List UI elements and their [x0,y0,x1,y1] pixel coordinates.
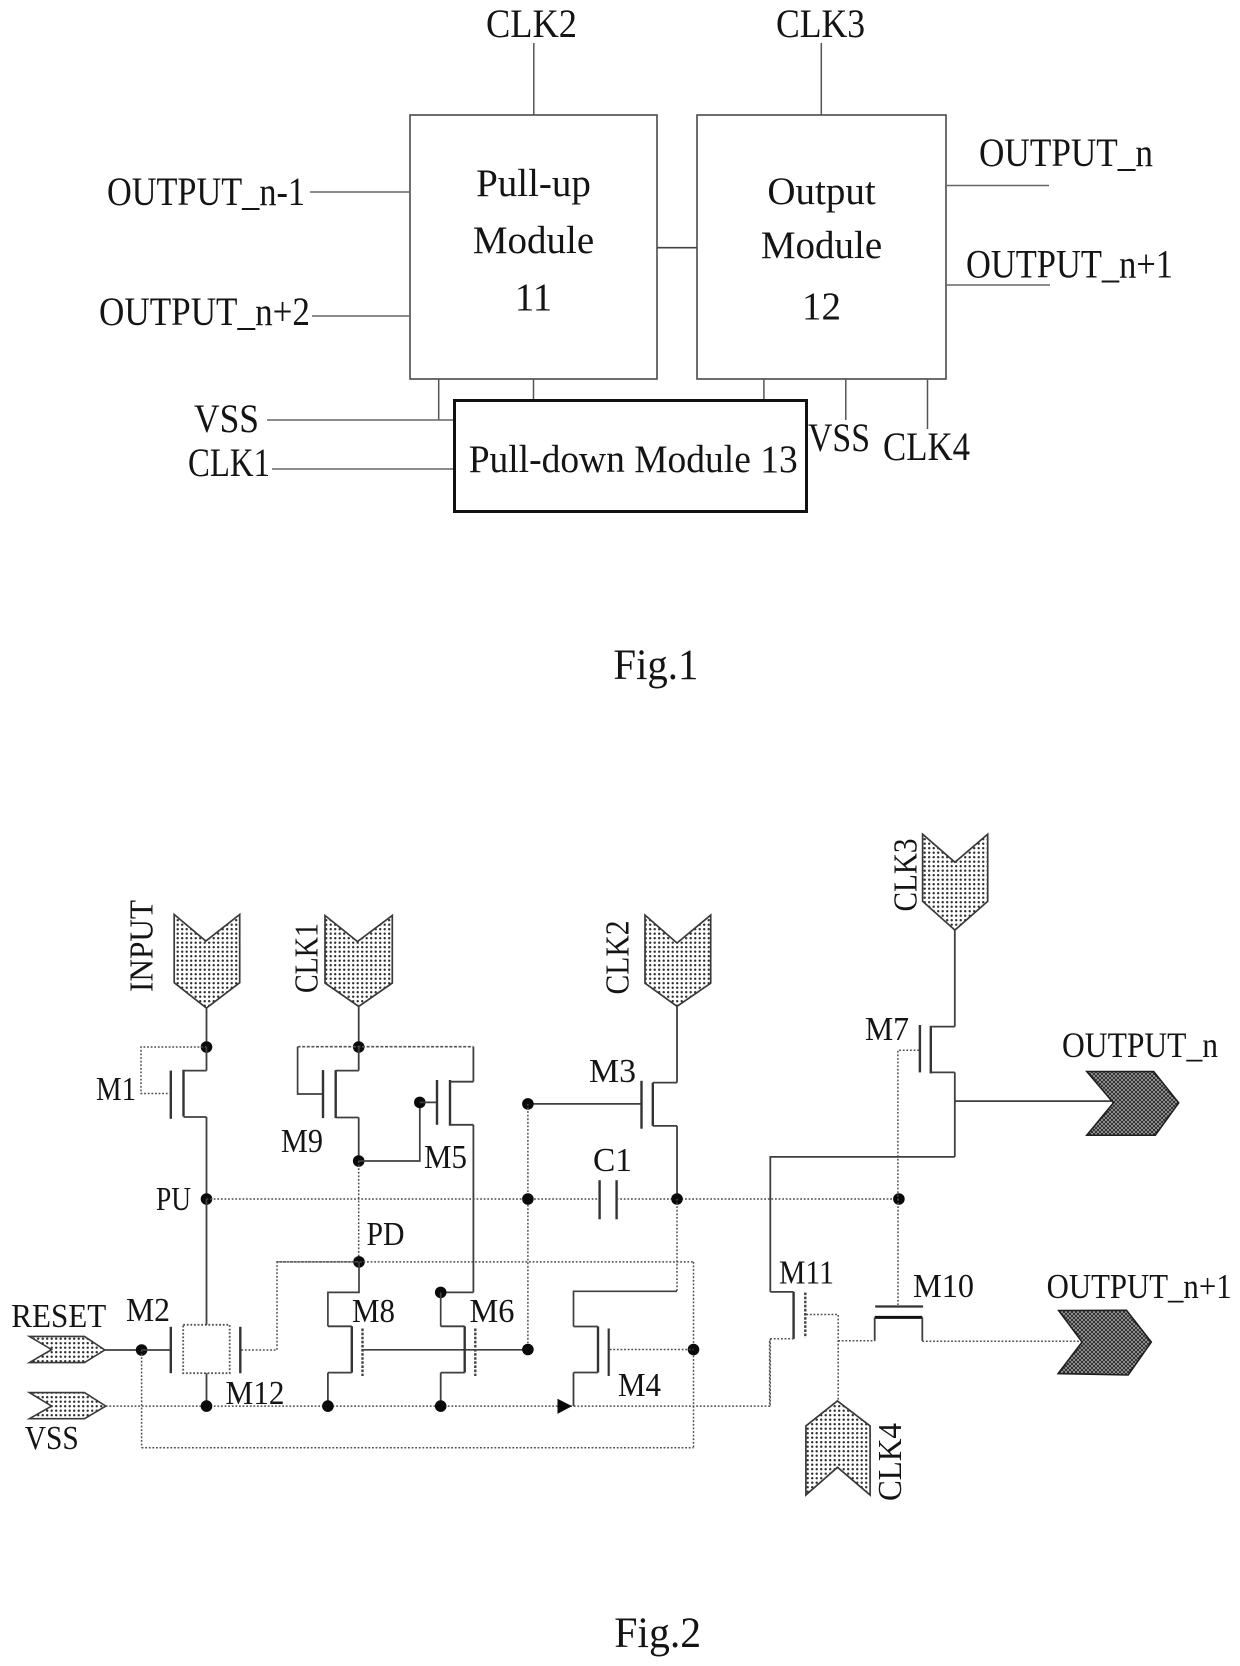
wire M11 gate lead to CLK4 [806,1315,838,1401]
svg-text:M7: M7 [865,1011,909,1048]
wire VSS rail [106,1340,770,1407]
node CLK1 junction [353,1041,365,1053]
wire M5 source link to M6 drain [441,1291,474,1293]
wire VSS to Pull-down Module [267,419,455,421]
wire PU line (right of C1) [617,1198,899,1200]
svg-text:M5: M5 [424,1139,467,1176]
node M4 gate junction [688,1344,700,1356]
svg-text:M1: M1 [96,1071,136,1108]
svg-text:PD: PD [367,1216,405,1253]
svg-text:11: 11 [515,276,553,319]
svg-text:OUTPUT_n+2: OUTPUT_n+2 [99,289,310,334]
svg-text:OUTPUT_n-1: OUTPUT_n-1 [107,169,305,214]
svg-text:CLK1: CLK1 [188,440,270,485]
block Pull-up Module 11 [410,115,657,379]
svg-text:OUTPUT_n+1: OUTPUT_n+1 [1047,1267,1232,1306]
wire CLK2 to Pull-up Module [533,43,535,115]
svg-text:M11: M11 [779,1255,834,1292]
svg-text:12: 12 [802,285,841,328]
transistor M7 [920,1025,955,1073]
wire M7 source to OUTPUT_n arrow [955,1100,1111,1102]
svg-text:M2: M2 [126,1292,170,1329]
transistor M9 [323,1047,359,1118]
svg-text:VSS: VSS [808,415,870,460]
wire OUTPUT_n-1 to Pull-up Module [310,191,410,193]
node PU at C1 left [522,1193,534,1205]
svg-text:OUTPUT_n: OUTPUT_n [1062,1025,1218,1065]
caption Fig.1 [613,642,698,689]
node M6 drain junction [435,1287,447,1299]
block Pull-down Module 13 [455,401,807,512]
wire RESET node to M2 gate [142,1349,170,1351]
svg-text:M8: M8 [352,1293,395,1330]
output arrow OUTPUT_n+1 [1058,1310,1151,1375]
svg-text:OUTPUT_n+1: OUTPUT_n+1 [966,242,1173,287]
label VSS (fig2) [25,1420,79,1457]
label CLK1 (left) [188,440,270,485]
label CLK1 (rotated) [289,923,326,993]
svg-text:M4: M4 [618,1367,661,1404]
label C1 [593,1142,632,1179]
svg-text:VSS: VSS [194,396,259,441]
label CLK4 (rotated) [872,1423,909,1501]
block Output Module 12 [697,115,946,379]
wire M4 drain feed [574,1291,678,1326]
wire M3 source to PU node [676,1126,678,1199]
label OUTPUT_n (fig2) [1062,1025,1218,1065]
label M4 [618,1367,661,1404]
input arrow CLK2 [645,915,711,1006]
wire bottom return (RESET to PD/M4 gate vertical) [142,1447,694,1449]
caption Fig.2 [614,1610,701,1657]
label M7 [865,1011,909,1048]
node M5 gate junction [414,1097,426,1109]
label PD [367,1216,405,1253]
wire M3 gate lead to PU branch [528,1103,641,1105]
input arrow VSS [29,1393,105,1419]
svg-text:CLK2: CLK2 [486,1,577,46]
wire M7 source to M11 drain (top link) [770,1157,955,1292]
label CLK3 (rotated) [888,839,925,912]
label M2 [126,1292,170,1329]
node VSS at M6 source [435,1400,447,1412]
wire PD node to M8 drain [328,1262,359,1326]
label OUTPUT_n+1 (right output) [966,242,1173,287]
node M8/M6 gate line end [522,1344,534,1356]
label VSS (right of Pull-down Module) [808,415,870,460]
wire M1 source to PU node [206,1117,208,1199]
svg-text:C1: C1 [593,1142,632,1179]
label M12 [226,1375,285,1412]
svg-text:Output: Output [767,170,876,213]
label INPUT (rotated) [124,900,161,992]
label M3 [589,1053,636,1090]
node VSS at M8 source [322,1400,334,1412]
wire PD/M4-gate vertical [693,1262,695,1448]
svg-text:CLK3: CLK3 [888,839,925,912]
wire RESET to node [105,1349,142,1351]
wire CLK3 to Output Module [820,43,822,115]
label OUTPUT_n+2 (left input) [99,289,310,334]
wire M9 source node to M5 gate [359,1102,420,1161]
svg-text:CLK4: CLK4 [872,1423,909,1501]
node PU at M3 source [671,1193,683,1205]
wire PU branch vertical (M3 gate to M8/M6 gate line) [527,1104,529,1350]
svg-text:M6: M6 [470,1293,515,1330]
label OUTPUT_n-1 (left input) [107,169,305,214]
node M9 source / PD branch junction [353,1155,365,1167]
label OUTPUT_n+1 (fig2) [1047,1267,1232,1306]
wire RESET node down to bottom wire [141,1350,143,1448]
wire M9 gate branch [298,1047,322,1094]
wire CLK3 arrow to M7 drain [954,930,956,1027]
transistor M5 [437,1047,473,1126]
wire M1 gate loop to INPUT node [141,1047,207,1094]
wire CLK1 to Pull-down Module [272,468,455,470]
wire Output Module to OUTPUT_n [946,185,1049,187]
wire M7 gate lead [898,1050,919,1199]
output arrow OUTPUT_n [1087,1072,1179,1136]
node VSS at M2/M12 source [201,1400,213,1412]
junction arrowhead on VSS rail [558,1399,573,1414]
wire OUTPUT_n+2 to Pull-up Module [312,315,410,317]
wire Output Module bottom to VSS (right) [845,379,847,420]
svg-text:CLK1: CLK1 [289,923,326,993]
label M1 [96,1071,136,1108]
svg-text:Fig.2: Fig.2 [614,1610,701,1657]
input arrow INPUT [174,915,240,1009]
capacitor C1 [600,1180,617,1219]
wire M7 source down [954,1072,956,1157]
wire CLK2 arrow to M3 drain [676,1006,678,1083]
svg-text:Module: Module [473,219,594,262]
transistor M2/M12 (dual gate with box) [171,1325,241,1373]
wire M9 source node to PD node [358,1161,360,1262]
node RESET junction [136,1344,148,1356]
transistor M1 [171,1047,207,1119]
svg-text:CLK2: CLK2 [600,921,637,995]
label RESET [11,1298,106,1335]
label CLK3 (top) [776,1,865,46]
wire Pull-up Module bottom to Pull-down Module [533,379,535,400]
label CLK2 (top) [486,1,577,46]
wire M4 gate lead to PD vertical [610,1349,694,1351]
wire PU node down to M2/M12 box [206,1199,208,1325]
wire PU node down to M4 drain [676,1199,678,1291]
svg-text:OUTPUT_n: OUTPUT_n [979,130,1153,175]
wire M5 gate lead [420,1101,436,1103]
wire Pull-up Module bottom-left to VSS line [438,379,440,420]
label CLK2 (rotated) [600,921,637,995]
node PD [353,1256,365,1268]
wire CLK1 arrow to node [358,1006,360,1047]
input arrow CLK1 [325,916,392,1007]
label M8 [352,1293,395,1330]
svg-text:Fig.1: Fig.1 [613,642,698,689]
wire Output Module bottom to Pull-down Module [763,379,765,400]
svg-text:CLK4: CLK4 [883,424,970,469]
wire M10 drain to CLK4 vertical [838,1340,875,1342]
svg-text:RESET: RESET [11,1298,106,1335]
transistor M6 [441,1292,476,1406]
wire M12 gate to PD line [241,1262,359,1350]
svg-text:Pull-up: Pull-up [476,162,591,205]
node PU [201,1193,213,1205]
label M9 [281,1123,323,1160]
input arrow CLK4 (pointing up) [806,1401,870,1495]
wire Output Module to OUTPUT_n+1 [946,284,1050,286]
wire M2/M12 box to VSS rail [206,1373,208,1406]
wire M9 source down to node [358,1118,360,1162]
wire CLK1 node top rail [298,1046,474,1048]
svg-text:INPUT: INPUT [124,900,161,992]
transistor M10 [875,1199,923,1341]
wire Output Module bottom to CLK4 (right) [927,379,929,429]
svg-text:PU: PU [156,1181,191,1218]
wire PU line (left of C1) [207,1198,600,1200]
transistor M4 [574,1327,609,1407]
node M3 gate / PU branch [522,1098,534,1110]
wire M8/M6 gate line to PU branch [364,1349,528,1351]
svg-text:Pull-down Module 13: Pull-down Module 13 [469,438,798,481]
input arrow RESET [29,1336,104,1362]
label M5 [424,1139,467,1176]
node PU at M7/M10 gate [893,1193,905,1205]
svg-text:VSS: VSS [25,1420,79,1457]
wire PD horizontal line [277,1261,694,1263]
label PU [156,1181,191,1218]
wire M10 source to OUTPUT_n+1 arrow [922,1340,1083,1342]
label M11 [779,1255,834,1292]
wire M5 source down to M6 drain [472,1125,474,1293]
svg-text:CLK3: CLK3 [776,1,865,46]
wire Pull-up Module to Output Module [657,247,697,249]
transistor M8 [328,1326,363,1406]
svg-text:M10: M10 [913,1268,974,1305]
label OUTPUT_n (right output) [979,130,1153,175]
label M10 [913,1268,974,1305]
node INPUT/M1 drain junction [201,1041,213,1053]
transistor M11 [770,1292,805,1406]
input arrow CLK3 [923,834,988,930]
svg-text:M3: M3 [589,1053,636,1090]
transistor M3 [642,1081,678,1129]
svg-text:M9: M9 [281,1123,323,1160]
label VSS (left) [194,396,259,441]
label M6 [470,1293,515,1330]
wire INPUT arrow to node [206,1008,208,1047]
svg-text:Module: Module [761,224,882,267]
label CLK4 (right of Pull-down Module) [883,424,970,469]
